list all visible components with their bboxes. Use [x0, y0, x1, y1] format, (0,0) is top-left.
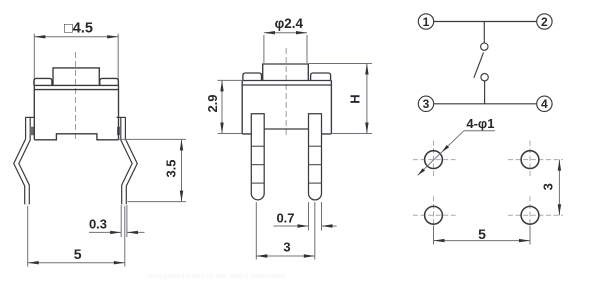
front view: left leg — [16, 118, 28, 204]
svg-text:5: 5 — [478, 226, 486, 242]
svg-text:3.5: 3.5 — [164, 159, 179, 177]
schematic: wire to upper contact — [483, 22, 485, 43]
front view: right tab — [100, 78, 119, 85]
schematic: wire 3-4 — [434, 103, 537, 105]
dimension 5 base width — [27, 206, 29, 267]
side view: right lead — [309, 114, 322, 200]
dimension 0.7 lead width — [308, 202, 310, 231]
svg-text:www.goodsky.com.cn tact switc: www.goodsky.com.cn tact switch dimension… — [146, 273, 286, 280]
side view: left tab — [243, 73, 262, 81]
footprint: hole bottom-left — [413, 214, 456, 216]
svg-text:2: 2 — [541, 15, 548, 29]
front view: right leg — [123, 118, 135, 204]
svg-text:1: 1 — [423, 15, 430, 29]
footprint: hole bottom-right — [508, 214, 563, 216]
side view: button plunger — [263, 64, 309, 81]
dimension 3.5 leg height — [119, 138, 186, 140]
side view: center line — [285, 48, 287, 138]
schematic: pin 2 — [537, 14, 552, 29]
footprint: dimension 3 vertical pitch — [558, 160, 560, 216]
side view: right tab — [311, 73, 331, 81]
svg-text:□4.5: □4.5 — [64, 21, 93, 37]
schematic: pin 1 — [418, 14, 433, 29]
svg-text:H: H — [348, 94, 363, 103]
schematic: wire from lower contact — [484, 81, 486, 104]
footprint: hole top-left — [413, 159, 456, 161]
schematic: pin 4 — [537, 96, 552, 111]
footprint: dimension 5 horizontal pitch — [433, 226, 435, 245]
front view: center line — [75, 52, 77, 139]
front view: button plunger — [53, 68, 99, 86]
side view: left lead — [251, 114, 264, 200]
svg-text:0.3: 0.3 — [89, 217, 107, 232]
dimension 2.9 body height — [218, 79, 243, 81]
svg-text:3: 3 — [541, 183, 556, 190]
dimension 0.3 lead width — [120, 205, 122, 237]
dimension 3 lead pitch — [255, 202, 257, 260]
svg-text:φ2.4: φ2.4 — [275, 16, 304, 31]
front view: body — [34, 85, 118, 139]
footprint: hole top-right — [508, 159, 563, 161]
schematic: wire 1-2 — [434, 21, 537, 23]
schematic: upper contact — [481, 43, 488, 50]
svg-text:5: 5 — [74, 246, 82, 262]
front view: left tab — [34, 78, 52, 85]
schematic: switch lever — [474, 52, 484, 77]
dimension H overall height — [308, 63, 372, 65]
svg-text:0.7: 0.7 — [276, 211, 294, 226]
schematic: pin 3 — [418, 96, 433, 111]
svg-text:4: 4 — [541, 97, 548, 111]
svg-text:3: 3 — [283, 240, 290, 255]
svg-text:3: 3 — [423, 97, 430, 111]
side view: body — [242, 81, 331, 134]
svg-text:4-φ1: 4-φ1 — [466, 116, 494, 131]
svg-text:2.9: 2.9 — [205, 94, 220, 112]
schematic: lower contact — [481, 74, 488, 81]
